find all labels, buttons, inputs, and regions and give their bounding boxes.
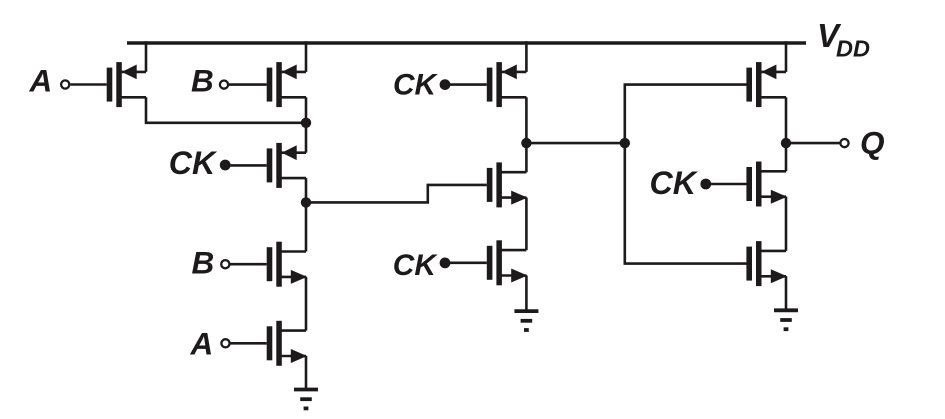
svg-text:CK: CK bbox=[393, 249, 439, 282]
svg-text:B: B bbox=[191, 63, 214, 99]
svg-text:A: A bbox=[29, 63, 53, 99]
svg-text:CK: CK bbox=[650, 165, 699, 201]
svg-text:CK: CK bbox=[169, 145, 218, 181]
svg-text:DD: DD bbox=[836, 35, 870, 61]
svg-text:Q: Q bbox=[860, 125, 885, 161]
svg-text:CK: CK bbox=[393, 69, 439, 102]
svg-text:B: B bbox=[192, 245, 215, 281]
svg-text:A: A bbox=[190, 325, 214, 361]
